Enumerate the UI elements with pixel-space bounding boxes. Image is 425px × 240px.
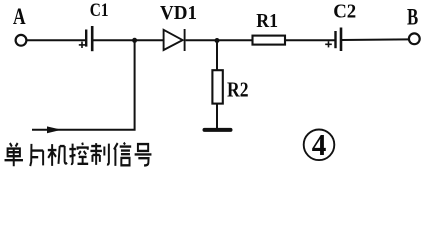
resistor R2 [212, 70, 222, 103]
svg-text:R1: R1 [256, 10, 278, 32]
wire C2 to B [342, 38, 409, 41]
svg-text:4: 4 [312, 128, 327, 162]
char 控 [69, 143, 88, 164]
capacitor C1 (polarized) [86, 26, 92, 51]
char 单 [5, 143, 23, 166]
ground [205, 128, 231, 132]
svg-text:C2: C2 [333, 2, 356, 23]
svg-text:R2: R2 [227, 77, 249, 101]
node junction dot (R2 tap) [215, 38, 220, 43]
char 信 [114, 143, 131, 166]
capacitor C2 (polarized) [336, 28, 342, 52]
resistor R1 [253, 36, 286, 45]
C1 plus polarity mark [79, 42, 85, 48]
node A terminal circle [16, 35, 27, 46]
node junction dot (control signal tap) [132, 38, 137, 43]
figure number circle 4 [304, 128, 335, 162]
char 制 [90, 143, 108, 165]
wire A to C1 [27, 39, 86, 41]
wire control signal (up to rail) [32, 40, 135, 130]
svg-text:B: B [407, 5, 418, 31]
wire R1 to C2 [285, 39, 335, 41]
wire junction to R2 [216, 41, 218, 71]
node B terminal circle [409, 33, 420, 44]
wire R2 to ground [216, 104, 218, 129]
char 片 [30, 144, 43, 166]
char 机 [48, 144, 67, 166]
char 号 [135, 144, 152, 165]
wire diode to R1 [186, 39, 252, 41]
wire C1 to diode [93, 39, 163, 41]
C2 plus polarity mark [325, 41, 332, 47]
svg-text:A: A [13, 4, 26, 30]
hand-drawn CJK caption: 单片机控制信号 [5, 143, 152, 167]
svg-text:VD1: VD1 [160, 3, 197, 24]
diode VD1 [164, 29, 185, 51]
arrowhead on control signal wire [47, 126, 62, 133]
svg-text:C1: C1 [90, 0, 109, 21]
